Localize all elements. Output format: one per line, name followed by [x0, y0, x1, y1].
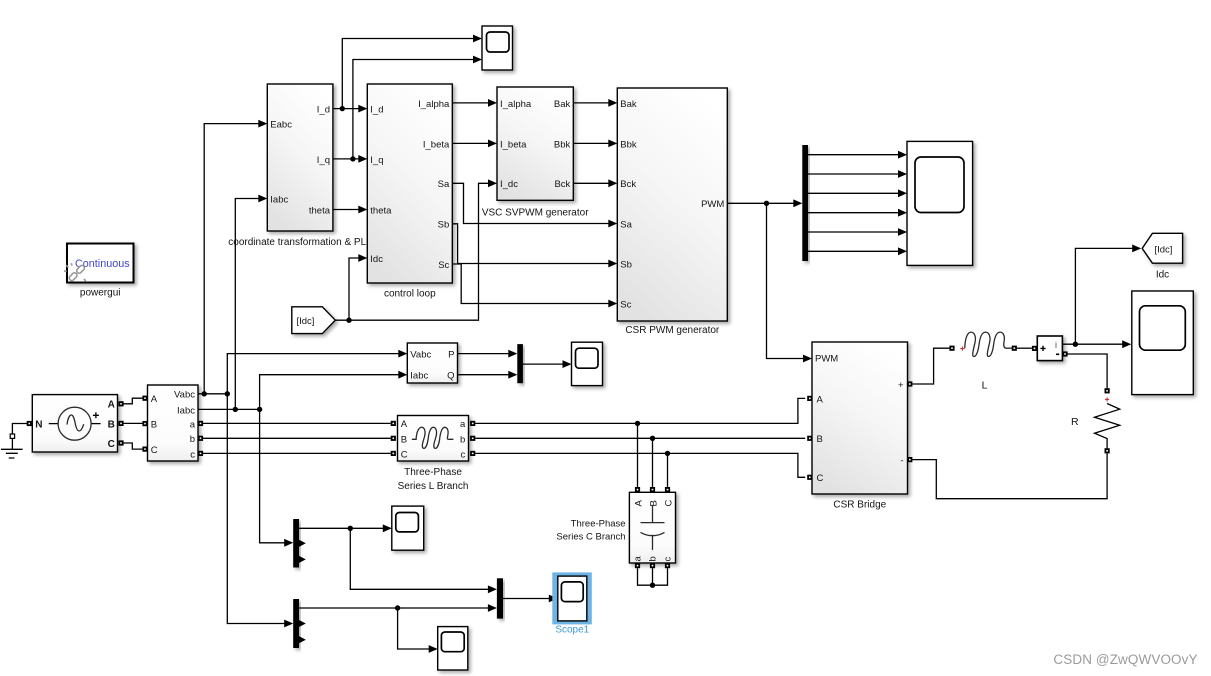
block Three-Phase Series C Branch: [629, 492, 675, 563]
source port B: [118, 421, 123, 426]
svg-text:Sc: Sc: [438, 260, 449, 271]
node I_q junction: [350, 156, 355, 161]
svg-text:b: b: [190, 434, 195, 445]
wire Q to mux: [458, 374, 510, 376]
svg-text:CSDN @ZwQWVOOvY: CSDN @ZwQWVOOvY: [1053, 652, 1197, 667]
svg-text:Three-Phase: Three-Phase: [571, 519, 626, 530]
wire demux out 1 to scope: [808, 154, 899, 156]
node Iabc junction 2: [257, 407, 262, 412]
inductor L coil: [965, 332, 1012, 356]
resistor R zigzag: [1095, 404, 1120, 449]
ground: [1, 439, 23, 459]
svg-text:L: L: [982, 380, 988, 392]
wire Iabc output net: [198, 408, 260, 410]
scope PQ: [572, 342, 603, 385]
svg-text:+: +: [898, 380, 904, 391]
svg-text:C: C: [151, 445, 158, 456]
wire mux to Scope1: [503, 598, 550, 600]
wire inductor to current sensor: [1017, 347, 1032, 349]
svg-text:c: c: [190, 449, 195, 460]
svg-text:VSC SVPWM generator: VSC SVPWM generator: [482, 208, 589, 219]
L branch port a: [470, 421, 475, 426]
node star junction: [650, 583, 655, 588]
wire current sensor i output to scope: [1062, 343, 1123, 345]
svg-text:CSR Bridge: CSR Bridge: [833, 500, 886, 511]
wire N to ground: [12, 424, 27, 434]
wire Iabc branch down to demux1: [260, 409, 286, 542]
measurement port a: [198, 421, 203, 426]
svg-text:Sa: Sa: [438, 179, 450, 190]
subsystem CSR PWM generator: [617, 88, 727, 321]
measurement port c: [198, 451, 203, 456]
svg-text:I_q: I_q: [370, 155, 383, 166]
CSR bridge port minus: [907, 457, 912, 462]
wire source B to measurement B: [124, 422, 143, 424]
CSR bridge port C: [807, 475, 812, 480]
svg-text:A: A: [817, 394, 824, 405]
svg-text:I_d: I_d: [317, 105, 330, 116]
svg-text:Bck: Bck: [620, 179, 636, 190]
measurement port A: [142, 396, 147, 401]
C branch port c: [665, 563, 670, 568]
C branch port a: [635, 563, 640, 568]
wire drop phase b to C branch: [652, 438, 654, 487]
wire phase a L branch to CSR bridge A: [475, 398, 805, 423]
svg-text:A: A: [151, 394, 158, 405]
wire drop phase c to C branch: [667, 453, 669, 487]
demux1: [293, 519, 299, 568]
svg-text:Bbk: Bbk: [554, 139, 571, 150]
wire source C to measurement C: [124, 443, 143, 449]
mux PQ: [517, 344, 523, 383]
CSR bridge port A: [807, 396, 812, 401]
CSR bridge port plus: [907, 381, 912, 386]
svg-text:b: b: [460, 434, 465, 445]
svg-text:Bbk: Bbk: [620, 139, 637, 150]
wire demux2 branch to scope: [398, 608, 430, 649]
wire phase b measurement to L branch: [203, 437, 391, 439]
measurement port B: [142, 421, 147, 426]
L branch port b: [470, 436, 475, 441]
svg-text:P: P: [448, 350, 454, 361]
mux Scope1: [497, 578, 503, 618]
node b junction: [650, 436, 655, 441]
wire Sc to CSR PWM generator: [452, 264, 609, 304]
CSR bridge port B: [807, 436, 812, 441]
scope PWM signals: [907, 141, 973, 265]
svg-text:Sb: Sb: [438, 220, 450, 231]
source port A: [118, 401, 123, 406]
powergui block: [64, 244, 134, 283]
node Iabc junction 1: [233, 407, 238, 412]
svg-text:I_alpha: I_alpha: [418, 99, 450, 110]
svg-text:-: -: [900, 456, 903, 467]
svg-text:Continuous: Continuous: [75, 258, 130, 270]
wire Bak: [573, 102, 609, 104]
resistor bottom port: [1105, 448, 1110, 453]
svg-text:[Idc]: [Idc]: [297, 316, 315, 327]
svg-text:Q: Q: [447, 371, 454, 382]
Goto tag [Idc]: [1142, 233, 1182, 263]
svg-text:C: C: [108, 439, 115, 450]
C branch port b: [650, 563, 655, 568]
svg-text:Three-Phase: Three-Phase: [404, 467, 462, 478]
wire phase b L branch to CSR bridge B: [475, 437, 805, 439]
wire Vabc branch down to demux2: [227, 394, 285, 624]
wire [Idc] to I_dc input of SVPWM: [335, 183, 489, 320]
svg-text:I_d: I_d: [370, 105, 383, 116]
svg-text:Bak: Bak: [554, 99, 571, 110]
svg-text:I_q: I_q: [317, 155, 330, 166]
wire P to mux: [458, 353, 510, 355]
subsystem coordinate transformation & PLL: [267, 84, 333, 231]
wire Bck: [573, 182, 609, 184]
wire I_q to control loop and scope: [333, 158, 359, 160]
wire Sa to CSR PWM generator: [452, 183, 609, 223]
Scope1 selected: [552, 572, 592, 624]
C branch port C: [665, 487, 670, 492]
svg-text:c: c: [663, 557, 674, 562]
svg-text:B: B: [108, 419, 115, 430]
C branch port A: [635, 487, 640, 492]
svg-text:B: B: [817, 434, 823, 445]
wire I_d to control loop and scope: [333, 108, 359, 110]
C branch port B: [650, 487, 655, 492]
svg-text:Sb: Sb: [620, 259, 632, 270]
From tag [Idc]: [292, 307, 336, 334]
wire PWM to demux: [727, 202, 794, 204]
source port C: [118, 440, 123, 445]
source port N: [27, 421, 32, 426]
svg-text:theta: theta: [370, 205, 392, 216]
node Vabc junction 2: [225, 391, 230, 396]
wire resistor bottom to CSR bridge minus: [912, 453, 1107, 498]
svg-text:Series L Branch: Series L Branch: [398, 481, 469, 492]
wire CSR bridge + to inductor: [912, 348, 949, 384]
wire mux PQ to scope: [523, 363, 564, 365]
resistor polarity mark: [1105, 397, 1109, 401]
current sensor minus port: [1062, 351, 1067, 356]
wire phase c measurement to L branch: [203, 452, 391, 454]
block Three-Phase Series L Branch: [398, 416, 469, 462]
svg-text:I_beta: I_beta: [500, 139, 527, 150]
svg-text:control loop: control loop: [384, 289, 436, 300]
svg-text:C: C: [401, 449, 408, 460]
subsystem VSC SVPWM generator: [497, 87, 573, 200]
svg-text:Eabc: Eabc: [270, 120, 292, 131]
subsystem CSR Bridge: [812, 342, 908, 494]
node I_d junction: [340, 106, 345, 111]
svg-text:N: N: [35, 420, 42, 431]
svg-text:PWM: PWM: [815, 353, 838, 364]
current measurement block: [1037, 336, 1062, 361]
svg-text:A: A: [108, 400, 115, 411]
wire [Idc] branch to Idc input of control loop: [349, 258, 359, 320]
measurement port C: [142, 447, 147, 452]
wire i branch up to Goto Idc: [1075, 248, 1133, 344]
node demux2 junction: [395, 605, 400, 610]
svg-text:Scope1: Scope1: [555, 625, 589, 636]
wire drop phase a to C branch: [637, 423, 639, 487]
wire theta to control loop: [333, 209, 359, 211]
node i junction: [1073, 342, 1078, 347]
svg-text:C: C: [817, 473, 824, 484]
svg-text:I_beta: I_beta: [423, 139, 450, 150]
svg-text:i: i: [1055, 340, 1057, 350]
scope Idq: [482, 26, 513, 70]
wire demux out 3 to scope: [808, 192, 899, 194]
svg-text:[Idc]: [Idc]: [1155, 244, 1173, 255]
node Vabc junction 1: [202, 391, 207, 396]
node Idc junction: [346, 318, 351, 323]
L branch port A: [391, 421, 396, 426]
wire current sensor minus to resistor: [1068, 354, 1108, 388]
wire demux1 out to scope: [299, 527, 384, 529]
svg-text:Bak: Bak: [620, 99, 637, 110]
svg-text:I_dc: I_dc: [500, 179, 518, 190]
wire demux out 6 to scope: [808, 250, 899, 252]
wire phase c L branch to CSR bridge C: [475, 453, 805, 477]
svg-text:a: a: [460, 419, 466, 430]
svg-text:Idc: Idc: [1156, 270, 1169, 281]
scope Idc: [1132, 291, 1194, 395]
svg-text:Series C Branch: Series C Branch: [556, 532, 625, 543]
scope Vabc demux: [438, 627, 468, 670]
wire demux out 4 to scope: [808, 212, 899, 214]
wire C branch star point: [638, 568, 668, 585]
node c junction: [665, 451, 670, 456]
wire demux out 5 to scope: [808, 231, 899, 233]
svg-text:B: B: [649, 500, 660, 506]
ground connection port: [10, 434, 14, 438]
svg-text:powergui: powergui: [80, 288, 121, 299]
node demux1 junction: [348, 526, 353, 531]
wire Bbk: [573, 142, 609, 144]
wire Vabc branch to Eabc: [204, 124, 259, 394]
svg-text:A: A: [401, 419, 408, 430]
svg-text:theta: theta: [309, 205, 331, 216]
svg-text:b: b: [648, 556, 659, 561]
wire I_beta: [452, 142, 489, 144]
wire PWM branch down to CSR Bridge: [767, 203, 804, 358]
wire demux out 2 to scope: [808, 173, 899, 175]
demux2: [293, 599, 299, 648]
svg-text:I_alpha: I_alpha: [500, 99, 532, 110]
wire Sb to CSR PWM generator: [452, 224, 609, 264]
wire phase a measurement to L branch: [203, 422, 391, 424]
svg-text:Iabc: Iabc: [410, 371, 428, 382]
inductor L right port: [1012, 346, 1017, 351]
svg-text:coordinate transformation & PL: coordinate transformation & PLL: [228, 237, 372, 248]
svg-text:R: R: [1071, 416, 1079, 428]
svg-text:a: a: [190, 419, 196, 430]
measurement port b: [198, 436, 203, 441]
svg-text:A: A: [634, 500, 645, 507]
L branch port c: [470, 451, 475, 456]
L branch port B: [391, 436, 396, 441]
svg-text:a: a: [633, 556, 644, 562]
resistor top port: [1105, 388, 1110, 393]
demux2 unconnected outputs: [298, 620, 306, 628]
demux1 unconnected outputs: [298, 539, 306, 547]
svg-text:Bck: Bck: [554, 179, 570, 190]
scope Iabc demux: [392, 506, 424, 550]
svg-text:CSR PWM generator: CSR PWM generator: [625, 325, 720, 336]
node PWM junction: [764, 201, 769, 206]
svg-text:c: c: [461, 449, 466, 460]
svg-text:Iabc: Iabc: [177, 405, 195, 416]
svg-text:Sa: Sa: [620, 219, 632, 230]
wire Vabc output net: [198, 393, 227, 395]
wire Iabc branch to coord transform: [235, 199, 259, 410]
inductor polarity mark: [960, 347, 964, 351]
svg-text:PWM: PWM: [701, 199, 724, 210]
wire demux1 branch to mux: [350, 528, 489, 589]
svg-text:Vabc: Vabc: [410, 350, 431, 361]
svg-text:C: C: [664, 500, 675, 507]
three-phase V-I measurement block: [148, 385, 199, 461]
svg-text:Sc: Sc: [620, 299, 631, 310]
subsystem control loop: [367, 84, 452, 283]
L branch port C: [391, 451, 396, 456]
wire Vabc branch to PQ measurement: [227, 354, 399, 394]
svg-text:B: B: [151, 420, 157, 431]
demux PWM 6 outputs: [802, 145, 808, 261]
wire source A to measurement A: [124, 398, 143, 404]
three-phase programmable voltage source: [32, 395, 117, 452]
current sensor left port: [1032, 346, 1037, 351]
node a junction: [635, 421, 640, 426]
inductor L left port: [949, 346, 954, 351]
power measurement block PQ: [407, 343, 457, 383]
wire Iabc branch to PQ measurement: [260, 375, 400, 410]
wire I_alpha: [452, 102, 489, 104]
svg-text:B: B: [401, 434, 407, 445]
wire demux2 out to mux: [299, 607, 489, 609]
svg-text:Iabc: Iabc: [270, 194, 288, 205]
svg-text:Idc: Idc: [370, 254, 383, 265]
svg-text:Vabc: Vabc: [174, 390, 195, 401]
